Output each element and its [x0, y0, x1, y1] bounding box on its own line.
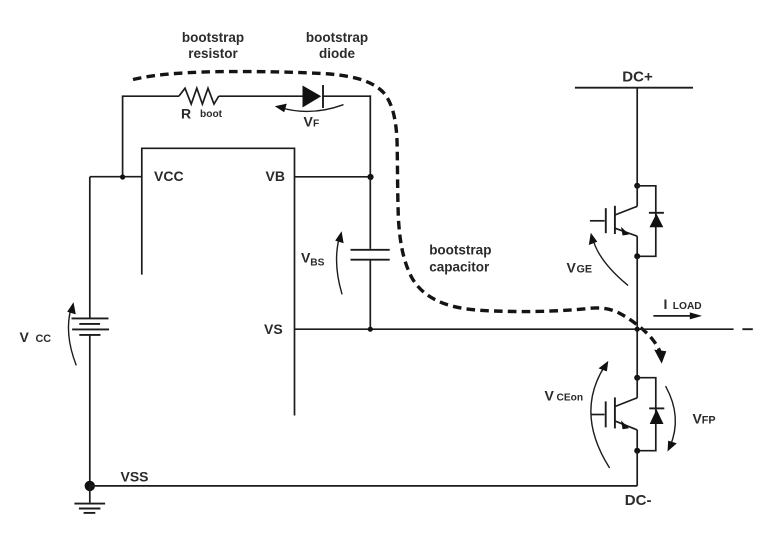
label VFP [693, 411, 716, 427]
node capacitor/VS junction [368, 327, 373, 332]
svg-text:LOAD: LOAD [673, 301, 702, 312]
wire top loop left vertical [122, 96, 124, 177]
svg-text:GE: GE [577, 264, 593, 276]
wire switch node to Q2 collector [636, 329, 638, 378]
svg-text:V: V [20, 329, 30, 345]
arrow VCEon [591, 361, 609, 468]
label bootstrap capacitor [429, 242, 491, 274]
svg-text:DC-: DC- [625, 492, 652, 509]
label R_boot [181, 106, 223, 122]
label bootstrap diode [306, 30, 368, 61]
label VF [304, 113, 320, 129]
svg-text:VSS: VSS [121, 469, 149, 485]
wire Q1 emitter to switch node [636, 256, 638, 329]
node Q2 emitter [634, 448, 640, 454]
transistor Q2 (low-side IGBT) [591, 378, 637, 451]
svg-text:resistor: resistor [188, 46, 238, 61]
node Q1 collector [634, 183, 640, 189]
wire DC+ rail [575, 87, 693, 89]
line continuation dash [742, 328, 752, 330]
node Q1 emitter [634, 253, 640, 259]
wire VB pin [295, 176, 371, 178]
node VCC junction [120, 174, 125, 179]
wire left to resistor [122, 95, 179, 97]
wire left rail lower [89, 335, 91, 486]
svg-text:diode: diode [319, 46, 355, 61]
battery V_CC source [72, 318, 110, 335]
svg-text:CEon: CEon [557, 392, 584, 403]
label Vcc [20, 329, 52, 345]
label VGE [567, 260, 593, 276]
svg-text:bootstrap: bootstrap [306, 30, 368, 45]
wire left rail upper [89, 177, 91, 318]
svg-text:VB: VB [266, 168, 285, 184]
diode D_boot [303, 85, 324, 108]
wire diode to VB corner [322, 95, 371, 97]
svg-text:V: V [545, 387, 555, 403]
arrow VBS [335, 231, 343, 293]
arrow VGE [589, 233, 628, 285]
label I_LOAD [664, 296, 702, 312]
svg-text:capacitor: capacitor [429, 259, 490, 274]
svg-text:V: V [304, 113, 314, 129]
IC box (gate driver) [142, 148, 295, 415]
wire Q2 emitter to DC- [636, 451, 638, 486]
ground symbol [74, 486, 105, 513]
arrow VFP [666, 387, 677, 452]
wire resistor to diode [219, 95, 303, 97]
svg-text:BS: BS [310, 258, 324, 269]
label bootstrap resistor [182, 30, 244, 61]
arrow Vcc [67, 302, 76, 365]
diode D2 (freewheel, Q2) [637, 378, 664, 451]
svg-text:boot: boot [200, 109, 223, 120]
node VSS junction [85, 481, 95, 491]
svg-text:VCC: VCC [154, 168, 184, 184]
wire VCC pin [90, 176, 142, 178]
wire top loop right vertical [369, 95, 371, 177]
svg-text:CC: CC [36, 333, 52, 345]
svg-text:VS: VS [264, 321, 283, 337]
svg-text:FP: FP [702, 415, 716, 427]
resistor R_boot [179, 88, 219, 104]
svg-text:bootstrap: bootstrap [182, 30, 244, 45]
svg-text:R: R [181, 106, 191, 122]
diode D1 (freewheel, Q1) [637, 186, 664, 256]
svg-text:bootstrap: bootstrap [429, 242, 491, 257]
transistor Q1 (high-side IGBT) [590, 186, 637, 256]
dashed bootstrap charge path [133, 72, 666, 364]
svg-text:I: I [664, 296, 668, 312]
node switch node [635, 327, 640, 332]
wire VS line (switch node) [295, 328, 734, 330]
capacitor C_boot [351, 177, 390, 329]
label VBS [301, 250, 325, 269]
arrow VF [275, 104, 343, 113]
arrow I_LOAD [653, 312, 702, 319]
svg-text:V: V [567, 260, 577, 276]
wire DC+ to Q1 collector [636, 88, 638, 186]
wire VSS line [90, 485, 637, 487]
node Q2 collector [634, 375, 640, 381]
label VCEon [545, 387, 584, 403]
svg-text:DC+: DC+ [622, 68, 653, 85]
svg-text:F: F [313, 118, 319, 129]
node VB junction [367, 174, 373, 180]
